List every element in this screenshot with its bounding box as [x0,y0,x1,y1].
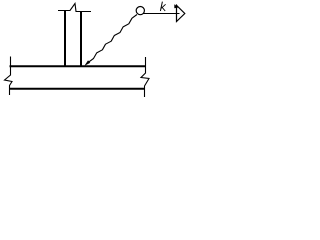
top break cut line of web plate [58,4,91,12]
field weld flag pole [176,5,178,22]
left break line of flange plate [5,57,13,96]
field weld flag triangle [177,5,185,21]
flange plate top surface line [10,65,146,67]
right break line of flange plate [141,57,149,97]
web plate right edge line [80,11,82,67]
flange plate bottom surface line [10,88,146,90]
reference line (shelf) [143,13,180,15]
label k (weld leg size) [160,2,165,11]
web plate left edge line [64,10,66,67]
leader arrowhead at weld joint [85,61,90,66]
wavy leader line [89,15,138,63]
flag top corner fill [174,4,178,8]
weld-all-around circle at leader bend [136,7,144,15]
